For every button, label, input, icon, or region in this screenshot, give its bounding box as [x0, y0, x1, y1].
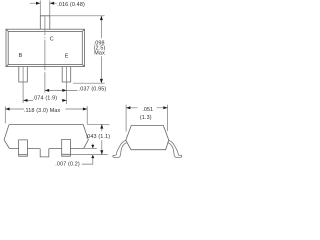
dim .098 top extension line [50, 15, 105, 17]
emitter lead E (top view) [62, 67, 70, 82]
.007 upper arrow (down) [91, 145, 94, 149]
.118 right arrow [83, 108, 87, 111]
corner chamfer ticks [6, 29, 85, 66]
dim .037 line [45, 89, 78, 91]
dim .051 extension bars [126, 105, 168, 132]
dim .118 extension bars [5, 106, 87, 124]
svg-text:E: E [65, 54, 69, 60]
svg-text:Max: Max [94, 50, 105, 56]
.118 left arrow [5, 108, 9, 111]
vertical centerline (dash-dot) [44, 17, 46, 93]
dim .043 vertical line [101, 124, 103, 154]
.051 left arrow [126, 106, 130, 109]
svg-text:B: B [19, 53, 23, 59]
svg-text:.016 (0.48): .016 (0.48) [57, 2, 85, 8]
body outline (top view) outer [6, 29, 85, 66]
.098 bottom arrow [100, 79, 103, 83]
.037 left arrow [45, 89, 49, 92]
.098 top arrow [100, 16, 103, 20]
dim .016 extension bars [40, 1, 50, 16]
dim .098 bottom extension line [73, 82, 105, 84]
.051 right arrow [163, 106, 167, 109]
E lead center extension line [66, 67, 68, 104]
arrowheads [5, 2, 167, 158]
svg-text:.007 (0.2): .007 (0.2) [55, 162, 80, 168]
.074 right arrow [62, 99, 66, 102]
B lead center extension line [22, 67, 24, 103]
end view body outline [126, 125, 169, 149]
dim .043 top extension line [87, 123, 109, 125]
dim .074 line [23, 99, 66, 101]
seating plane reference line [71, 154, 108, 156]
side view lead foot C (middle) [40, 149, 49, 157]
body outline (top view) inner edge [8, 31, 82, 64]
base lead B (top view) [19, 67, 28, 82]
.043 bottom arrow [100, 150, 103, 154]
.043 top arrow [100, 124, 103, 128]
side view body bottom edge segments [9, 148, 83, 150]
.037 right arrow [62, 89, 66, 92]
.016 left arrow [36, 2, 40, 5]
svg-text:.043 (1.1): .043 (1.1) [86, 134, 111, 140]
dim .098 vertical line [100, 16, 102, 83]
dim .016 lines [30, 2, 57, 4]
svg-text:(1.3): (1.3) [140, 115, 152, 121]
svg-text:.051: .051 [142, 107, 153, 113]
body bottom reference line (.007 top) [84, 147, 97, 149]
.074 left arrow [23, 99, 27, 102]
side view lead foot B [19, 140, 28, 156]
svg-text:.074 (1.9): .074 (1.9) [33, 96, 58, 102]
.007 lower arrow (up) [91, 155, 94, 159]
side view body outline [4, 125, 88, 149]
dim .051 line segments [126, 107, 168, 109]
collector tab lead (top view) [40, 16, 50, 29]
svg-text:.118 (3.0) Max: .118 (3.0) Max [24, 108, 61, 114]
svg-text:.037 (0.95): .037 (0.95) [79, 87, 107, 93]
.016 right arrow [50, 2, 54, 5]
side view lead foot E [62, 139, 71, 156]
svg-text:C: C [50, 37, 54, 43]
end view left gull-wing lead [113, 140, 182, 157]
end view right gull-wing lead [168, 140, 182, 157]
dim .007 lower leader [82, 156, 93, 165]
dim .007 upper arrow tail [92, 144, 94, 148]
dim .118 line segments [5, 108, 87, 110]
